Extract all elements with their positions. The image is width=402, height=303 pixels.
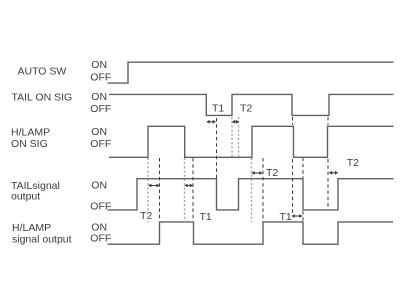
svg-text:H/LAMP: H/LAMP <box>12 222 51 234</box>
arrow T1 (H/LAMP SIG fall to H/LAMP out fall) <box>184 184 193 188</box>
ref line dotted x=184.5 (H/LAMP ON SIG fall) <box>184 158 186 222</box>
waveform H/LAMP ON SIG <box>109 126 394 157</box>
svg-text:ON: ON <box>91 91 107 103</box>
ref line dashed x=159.5 (H/LAMP output rise) <box>159 158 161 221</box>
arrow T2 (H/LAMP SIG rise to H/LAMP out rise) <box>148 184 160 188</box>
ref line dotted x=238.5 (TAIL output rise ext) <box>238 117 240 157</box>
waveform H/LAMP signal output <box>108 222 394 244</box>
svg-text:ON: ON <box>91 126 107 138</box>
arrow T1 (TAIL SIG fall to TAIL out fall) <box>206 120 216 124</box>
arrow T2 (TAIL SIG rise to TAIL out rise) <box>232 120 240 124</box>
svg-text:T2: T2 <box>266 167 278 179</box>
arrow T1 (SIG falls to outputs fall) <box>291 214 302 218</box>
svg-text:OFF: OFF <box>90 103 111 115</box>
ref line dotted x=232 (TAIL ON SIG rise) <box>231 117 233 157</box>
svg-text:AUTO SW: AUTO SW <box>18 66 67 78</box>
ref line dashed x=328 (SIG rises right) <box>327 117 329 125</box>
waveform AUTO SW <box>108 62 394 83</box>
ref line dashed x=216.5 (TAIL output fall) <box>216 118 218 178</box>
ref line dashed x=193 (H/LAMP output fall) <box>192 158 194 221</box>
svg-text:OFF: OFF <box>90 233 111 245</box>
svg-text:output: output <box>11 191 40 203</box>
svg-text:T1: T1 <box>200 211 212 223</box>
ref line dashed x=263 (H/LAMP output rise #2) <box>262 158 264 221</box>
svg-text:ON: ON <box>91 59 107 71</box>
svg-text:ON: ON <box>91 180 107 192</box>
svg-text:T2: T2 <box>347 157 359 169</box>
ref line dotted x=251.5 (H/LAMP ON SIG rise #2) <box>251 158 253 222</box>
arrow T2 (SIG rises to outputs rise) <box>329 171 339 175</box>
svg-text:ON SIG: ON SIG <box>11 138 48 150</box>
arrow T2 (H/LAMP SIG rise2 to out rise2) <box>251 171 262 175</box>
svg-text:H/LAMP: H/LAMP <box>11 126 50 138</box>
svg-text:T2: T2 <box>140 210 152 222</box>
ref line dashed x=292.5 (SIG falls right) <box>292 117 294 125</box>
svg-text:OFF: OFF <box>90 201 111 213</box>
waveform TAIL ON SIG <box>109 94 394 115</box>
svg-text:T2: T2 <box>240 103 252 115</box>
ref line dashed x=303 (outputs fall) <box>302 158 304 179</box>
waveform TAIL signal output <box>108 179 394 210</box>
svg-text:signal output: signal output <box>12 233 72 245</box>
svg-text:T1: T1 <box>212 103 224 115</box>
ref line dotted x=148 (H/LAMP ON SIG rise) <box>147 158 149 222</box>
svg-text:TAIL ON SIG: TAIL ON SIG <box>12 92 73 104</box>
svg-text:OFF: OFF <box>90 72 111 84</box>
svg-text:OFF: OFF <box>90 138 111 150</box>
